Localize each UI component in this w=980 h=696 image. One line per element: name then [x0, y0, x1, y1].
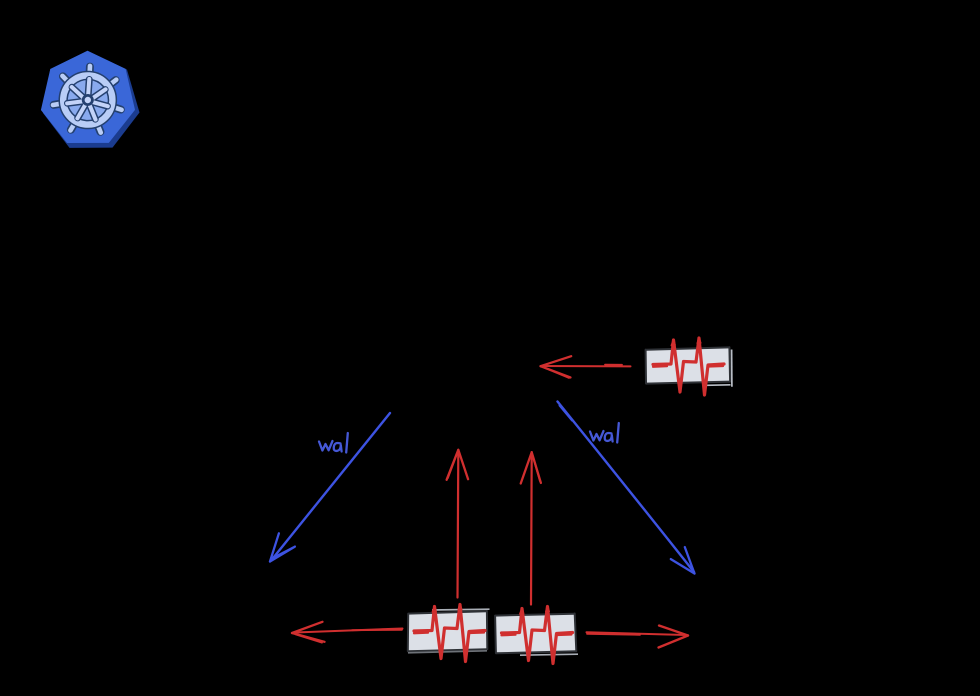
wheel ring — [62, 74, 115, 127]
box A (replica, right middle) — [646, 347, 732, 387]
blue wal arrow right — [558, 402, 695, 574]
red arrow bottom-right (points right) — [587, 626, 689, 648]
red vertical arrow 2 (up) — [521, 452, 541, 604]
wheel — [51, 63, 124, 133]
wal label right — [590, 423, 619, 443]
box B (bottom left replica) — [408, 609, 490, 653]
wheel spokes — [67, 78, 110, 120]
red arrow bottom-left (points left) — [292, 622, 403, 643]
heptagon body — [41, 51, 135, 143]
wheel inner disc — [65, 77, 111, 123]
red vertical arrow 1 (up) — [447, 450, 469, 598]
blue wal arrow left — [270, 413, 390, 562]
heptagon shadow — [43, 51, 140, 148]
wheel handles — [52, 64, 124, 133]
wheel hub — [83, 95, 93, 105]
kubernetes logo — [41, 51, 140, 148]
box C (bottom right replica) — [495, 614, 578, 656]
heartbeat icon A — [653, 338, 724, 396]
heartbeat icon C — [502, 606, 573, 664]
wal label left — [319, 433, 348, 453]
heartbeat icon B — [414, 604, 485, 662]
red arrow into boxA (points left) — [541, 356, 631, 378]
